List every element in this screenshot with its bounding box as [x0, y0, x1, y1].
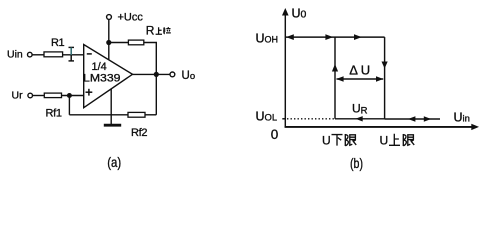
svg-text:UOL: UOL [256, 110, 278, 124]
svg-text:UOH: UOH [256, 31, 279, 45]
node Uo terminal circle [170, 72, 175, 77]
label 0 at origin [271, 127, 279, 142]
resistor R pull-up label shang-la (Chinese subscript) [156, 27, 171, 34]
resistor R pull-up label R [146, 24, 155, 38]
resistor R1 body [44, 52, 63, 57]
wire junction to R pull-up [109, 42, 129, 44]
svg-text:Rf2: Rf2 [131, 127, 147, 139]
node Ur terminal label [12, 90, 24, 102]
svg-text:R: R [146, 24, 155, 38]
op-amp U1 triangle 1/4 LM339 [84, 45, 133, 108]
svg-text:(a): (a) [107, 154, 121, 170]
node Ur terminal circle [28, 93, 33, 98]
tick on Y axis at UOL level [282, 118, 285, 120]
node Uo label [182, 70, 196, 82]
svg-text:Uin: Uin [454, 111, 470, 125]
axis Y arrowhead [282, 8, 289, 16]
wire Ur to Rf1 [33, 95, 45, 97]
label U upper threshold (U shang xian) [380, 134, 415, 148]
resistor R pull-up body [128, 40, 143, 45]
cursor I-beam artifact on inverting input wire [69, 47, 75, 61]
curve UOL level line between thresholds [335, 118, 385, 120]
curve UOL dotted segment from axis to lower threshold [287, 118, 335, 120]
arrow right on UOH line before lower threshold [325, 34, 333, 40]
axis X arrowhead [471, 124, 479, 130]
svg-text:R1: R1 [51, 37, 65, 49]
op-amp non-inverting input plus sign [86, 89, 93, 96]
svg-text:Uin: Uin [7, 49, 23, 61]
wire op-amp ground pin [110, 89, 112, 124]
axis Y label U0 [292, 7, 307, 21]
arrow right on UOH line between thresholds [354, 34, 362, 40]
arrow left on right UOL segment [408, 116, 415, 121]
node +Ucc terminal circle [107, 15, 112, 20]
svg-text:LM339: LM339 [83, 73, 121, 85]
label delta U [349, 62, 373, 77]
dimension arrow delta U [336, 76, 383, 81]
svg-text:1/4: 1/4 [92, 61, 107, 73]
wire output column down to Rf2 rail [155, 74, 157, 114]
arrow left on UOH line at axis [286, 34, 294, 40]
resistor Rf2 label [131, 127, 147, 139]
arrow left on UOL line between thresholds [355, 116, 362, 121]
wire Rf2 to output column [145, 114, 156, 116]
resistor R1 value label [51, 37, 65, 49]
label U lower threshold (U xia xian) [322, 134, 356, 148]
wire feedback node down to bottom rail [68, 96, 70, 115]
curve UOH level line [285, 36, 384, 38]
op-amp inverting input minus sign [87, 53, 92, 55]
svg-text:U: U [322, 134, 331, 148]
resistor Rf1 body [44, 93, 61, 98]
svg-text:ΔU: ΔU [349, 62, 373, 77]
axis X horizontal line [285, 126, 473, 128]
junction dot at Ucc node [106, 40, 111, 45]
wire +Ucc down to junction [108, 20, 110, 43]
wire R1 to op-amp inverting input [63, 54, 84, 56]
arrow down on falling jump [382, 62, 388, 69]
axis Y vertical line [284, 13, 286, 128]
svg-text:Rf1: Rf1 [46, 108, 62, 120]
wire bottom rail left segment [69, 114, 128, 116]
svg-text:U0: U0 [292, 7, 307, 21]
wire Rf1 to op-amp non-inverting input [62, 95, 84, 97]
curve falling jump vertical at U upper threshold [384, 37, 386, 119]
label UOH [256, 31, 279, 45]
arrow up on rising jump [332, 64, 338, 72]
ground [104, 124, 121, 127]
op-amp label LM339 [83, 73, 121, 85]
svg-text:Ur: Ur [12, 90, 24, 102]
resistor Rf1 label [46, 108, 62, 120]
node +Ucc label [118, 12, 144, 24]
svg-text:+Ucc: +Ucc [118, 12, 144, 24]
svg-text:Uo: Uo [182, 70, 196, 82]
wire R pull-up to output column [144, 43, 157, 75]
node Uin terminal circle [28, 52, 33, 57]
op-amp label 1/4 [92, 61, 107, 73]
caption (b) [350, 155, 363, 171]
label UOL [256, 110, 278, 124]
svg-text:U: U [380, 134, 389, 148]
wire junction to op-amp power pin [108, 43, 110, 61]
wire Uin to R1 [32, 54, 44, 56]
axis X label Uin [454, 111, 470, 125]
resistor Rf2 body [128, 112, 145, 117]
node Uin terminal label [7, 49, 23, 61]
wire op-amp output to Uo [133, 73, 171, 75]
label UR [352, 101, 368, 116]
curve UOL level line right of upper threshold [385, 118, 440, 120]
svg-text:0: 0 [271, 127, 279, 142]
caption (a) [107, 154, 121, 170]
arrow right on right UOL segment [424, 116, 431, 121]
junction dot at feedback node [67, 93, 72, 98]
curve rising jump vertical at U lower threshold [334, 37, 336, 119]
svg-text:(b): (b) [350, 155, 363, 171]
junction dot at output node [154, 72, 159, 77]
